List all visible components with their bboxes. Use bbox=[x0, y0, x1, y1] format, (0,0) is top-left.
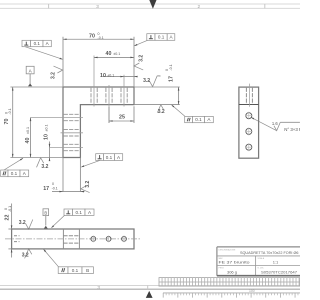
svg-text:3: 3 bbox=[97, 285, 100, 290]
svg-text:-0.1: -0.1 bbox=[52, 187, 58, 191]
svg-text:3.2: 3.2 bbox=[19, 220, 26, 226]
svg-text:SQUADRETTA 70x70x22 FORI Ø6: SQUADRETTA 70x70x22 FORI Ø6 bbox=[240, 250, 299, 255]
svg-text:100: 100 bbox=[249, 289, 255, 293]
svg-text:0: 0 bbox=[165, 69, 169, 71]
svg-text:70: 70 bbox=[89, 33, 95, 39]
svg-text:3.2: 3.2 bbox=[158, 109, 165, 115]
svg-text:PESO: PESO bbox=[219, 268, 225, 270]
svg-text:0.1: 0.1 bbox=[34, 41, 41, 46]
svg-text:0.1: 0.1 bbox=[72, 268, 79, 273]
svg-text:N° 3+3 F: N° 3+3 F bbox=[284, 127, 300, 132]
svg-text:10: 10 bbox=[100, 73, 106, 79]
svg-text:40: 40 bbox=[106, 51, 112, 57]
svg-text:±0.1: ±0.1 bbox=[45, 125, 49, 132]
svg-text:17: 17 bbox=[43, 186, 49, 192]
svg-text:±0.1: ±0.1 bbox=[107, 73, 114, 77]
svg-text:3.2: 3.2 bbox=[143, 78, 150, 84]
svg-text:25: 25 bbox=[119, 115, 125, 121]
svg-text:SCALA: SCALA bbox=[258, 257, 265, 260]
svg-text:-0.1: -0.1 bbox=[8, 206, 12, 212]
svg-text:3.2: 3.2 bbox=[51, 72, 57, 79]
svg-text:-0.1: -0.1 bbox=[98, 36, 104, 40]
svg-text:±0.1: ±0.1 bbox=[113, 52, 120, 56]
svg-text:3: 3 bbox=[96, 4, 99, 9]
svg-text:B: B bbox=[44, 210, 47, 215]
svg-text:306 g: 306 g bbox=[227, 269, 237, 274]
svg-text:±0.1: ±0.1 bbox=[26, 127, 30, 134]
svg-text:3.2: 3.2 bbox=[85, 181, 91, 188]
svg-text:S05370TC2017647: S05370TC2017647 bbox=[261, 270, 297, 274]
svg-text:3.2: 3.2 bbox=[41, 164, 48, 170]
svg-text:22: 22 bbox=[5, 215, 11, 221]
svg-text:0: 0 bbox=[52, 182, 54, 186]
svg-text:-0.1: -0.1 bbox=[8, 108, 12, 114]
svg-text:FE 37 brunito: FE 37 brunito bbox=[219, 260, 251, 265]
svg-text:40: 40 bbox=[25, 138, 31, 144]
svg-text:2: 2 bbox=[198, 4, 201, 9]
svg-text:DENOMINAZIONE: DENOMINAZIONE bbox=[219, 248, 237, 251]
svg-text:0.1: 0.1 bbox=[158, 35, 165, 40]
svg-text:3.2: 3.2 bbox=[139, 55, 145, 62]
svg-text:1:1: 1:1 bbox=[273, 259, 279, 264]
svg-text:N. DIS.: N. DIS. bbox=[258, 268, 265, 270]
svg-text:10: 10 bbox=[44, 134, 50, 140]
svg-text:3.2: 3.2 bbox=[22, 253, 29, 259]
svg-text:0.1: 0.1 bbox=[11, 171, 18, 176]
svg-text:0.1: 0.1 bbox=[76, 210, 83, 215]
svg-text:17: 17 bbox=[169, 76, 175, 82]
svg-text:1.6: 1.6 bbox=[272, 121, 278, 126]
svg-text:-0.1: -0.1 bbox=[169, 64, 173, 70]
svg-text:0.1: 0.1 bbox=[106, 155, 113, 160]
svg-text:0.1: 0.1 bbox=[195, 117, 202, 122]
svg-text:B: B bbox=[86, 268, 89, 273]
svg-text:70: 70 bbox=[4, 119, 10, 125]
